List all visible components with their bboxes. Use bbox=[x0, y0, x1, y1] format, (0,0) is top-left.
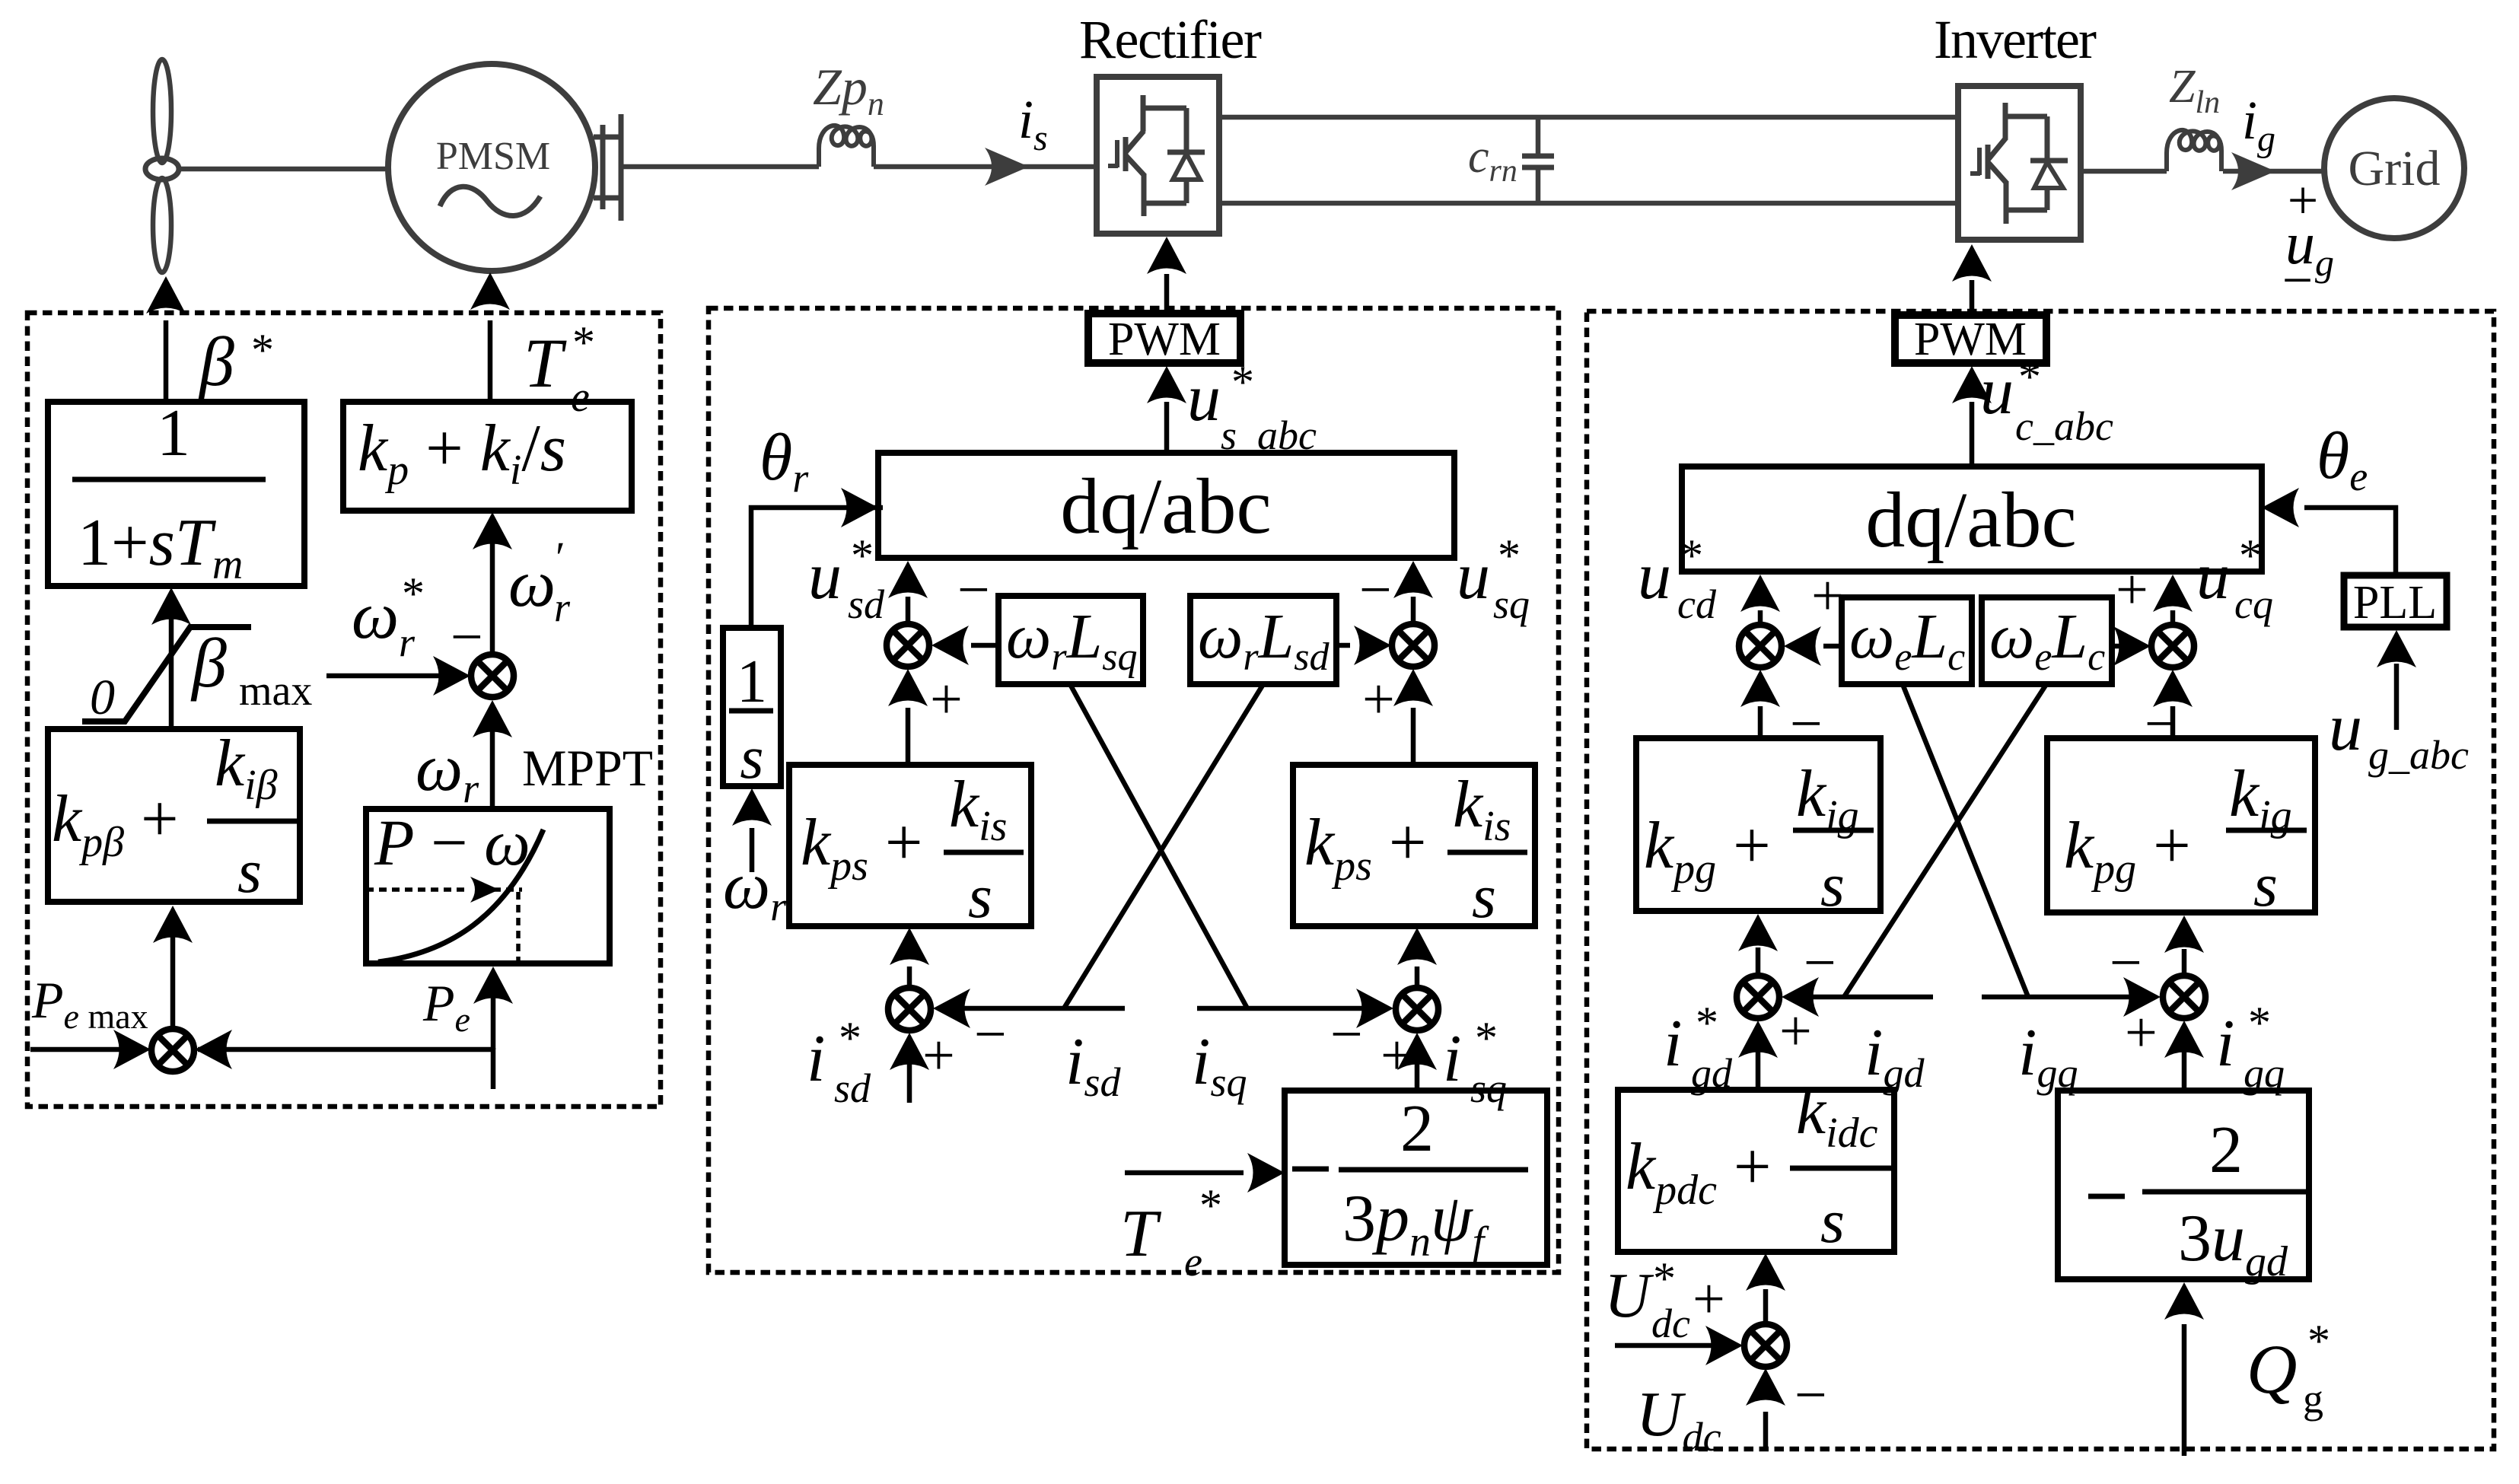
svg-text:*: * bbox=[1653, 1253, 1676, 1304]
arrowhead us_abc* into PWM bbox=[1147, 366, 1186, 403]
svg-text:s: s bbox=[968, 861, 992, 931]
arrowhead beta* into turbine bbox=[146, 276, 186, 314]
sum junction usq* bbox=[1392, 624, 1435, 667]
arrow shaft saturation to 1/(1+sTm) bbox=[169, 616, 174, 730]
arrowhead sum to kp+ki/s bbox=[473, 512, 512, 549]
arrowhead Te* into psi box bbox=[1247, 1153, 1285, 1193]
svg-text:*: * bbox=[851, 530, 874, 581]
wire speed-error sum to kp+ki/s bbox=[490, 533, 495, 654]
arrowhead Pe into P-omega box bbox=[473, 967, 513, 1004]
arrowhead igd* into sum bbox=[1738, 1021, 1778, 1058]
box P-omega MPPT bbox=[366, 809, 610, 963]
svg-text:+: + bbox=[1381, 1024, 1413, 1088]
arrowhead Udc into dc sum bbox=[1746, 1368, 1785, 1406]
arrowhead inside P-omega dashed bbox=[470, 877, 499, 903]
svg-text:*: * bbox=[1680, 530, 1703, 581]
svg-text:+: + bbox=[1362, 667, 1395, 731]
svg-text:s: s bbox=[2253, 850, 2278, 919]
svg-text:u: u bbox=[1638, 540, 1671, 613]
svg-text:1: 1 bbox=[737, 648, 767, 715]
svg-text:i: i bbox=[807, 1022, 825, 1096]
wire igq sum to kpg right bbox=[2182, 949, 2187, 975]
svg-text:2: 2 bbox=[2209, 1113, 2243, 1187]
box kps right bbox=[1293, 765, 1535, 926]
svg-text:+: + bbox=[930, 667, 963, 731]
arrowhead ucq* into dq/abc bbox=[2153, 575, 2193, 612]
svg-text:−: − bbox=[1790, 692, 1823, 756]
svg-text:c_abc: c_abc bbox=[2015, 403, 2113, 449]
svg-text:*: * bbox=[251, 325, 274, 375]
box kps left bbox=[789, 765, 1031, 926]
svg-text:0: 0 bbox=[90, 670, 115, 725]
capacitor crn wires bbox=[1536, 117, 1541, 203]
arrowhead ug_abc into PLL bbox=[2377, 630, 2416, 667]
svg-text:u: u bbox=[1457, 540, 1490, 613]
wire wLc1 to ucd sum bbox=[1823, 644, 1842, 649]
wire inverter to Zln bbox=[2081, 169, 2167, 174]
fraction bar 2/(3pnpsi) bbox=[1339, 1167, 1528, 1173]
inverter IGBT bbox=[1970, 148, 1980, 175]
sum junction Udc bbox=[1744, 1324, 1787, 1367]
svg-text:ω: ω bbox=[352, 579, 399, 653]
svg-text:e: e bbox=[571, 374, 590, 421]
wire isd* stub bbox=[907, 1053, 912, 1103]
svg-text:sd: sd bbox=[834, 1065, 871, 1111]
arrowhead igd sum to kpg bbox=[1738, 914, 1778, 951]
dc rail bottom bbox=[1219, 201, 1958, 206]
arrowhead Pemax into sum bbox=[113, 1030, 151, 1069]
svg-text:1: 1 bbox=[157, 396, 190, 470]
fraction bar kig/s left bbox=[1793, 828, 1874, 833]
arrowhead Pe into sum from right bbox=[195, 1030, 232, 1069]
svg-text:r: r bbox=[399, 619, 416, 665]
svg-text:′: ′ bbox=[556, 533, 565, 582]
svg-text:ω: ω bbox=[508, 547, 556, 621]
arrowhead igd into sum bbox=[1782, 977, 1819, 1017]
svg-text:MPPT: MPPT bbox=[522, 739, 653, 797]
box kpdc bbox=[1618, 1090, 1894, 1252]
svg-text:β: β bbox=[198, 323, 234, 400]
dq/abc box inverter bbox=[1682, 467, 2262, 572]
fraction bar kis/s left bbox=[944, 850, 1024, 855]
svg-text:r: r bbox=[554, 584, 571, 630]
arrow PWM to rectifier wire bbox=[1164, 274, 1170, 314]
svg-text:Inverter: Inverter bbox=[1934, 9, 2097, 70]
svg-text:+: + bbox=[2125, 1001, 2158, 1065]
i_g arrow head bbox=[2231, 152, 2275, 190]
arrowhead igq sum to kpg bbox=[2164, 916, 2204, 953]
wire igd sum to kpg left bbox=[1756, 947, 1761, 975]
wind turbine hub bbox=[145, 158, 179, 180]
box omega_e Lc 2 bbox=[1982, 597, 2112, 684]
wire Qg* into ugd box bbox=[2182, 1324, 2187, 1456]
sum junction ucq* bbox=[2151, 625, 2194, 667]
shaft wire turbine to PMSM bbox=[179, 167, 389, 172]
svg-text:−: − bbox=[1804, 931, 1836, 995]
svg-text:P − ω: P − ω bbox=[374, 806, 530, 879]
wire igd* from kpdc bbox=[1756, 1044, 1761, 1090]
svg-text:−: − bbox=[2145, 692, 2177, 756]
svg-text:−: − bbox=[1330, 1002, 1363, 1066]
arrowhead omega_r into 1/s bbox=[732, 788, 772, 826]
ug_abc input to PLL bbox=[2394, 664, 2400, 730]
wire isq horizontal bbox=[1197, 1006, 1373, 1011]
wire usq* sum to dq/abc bbox=[1411, 597, 1416, 623]
arrowhead uc_abc* into PWM bbox=[1952, 366, 1992, 403]
wire ucd* sum to dq/abc bbox=[1758, 610, 1763, 624]
inverter diode bbox=[2005, 116, 2068, 224]
svg-text:s: s bbox=[1820, 1186, 1845, 1256]
arrowhead PWM to inverter bbox=[1952, 244, 1992, 282]
arrowhead wLc2 into ucq sum bbox=[2113, 626, 2151, 666]
PWM box inverter bbox=[1895, 315, 2046, 363]
wire isd sum to kps left bbox=[907, 967, 912, 987]
sum junction speed error bbox=[471, 654, 514, 697]
svg-text:s: s bbox=[1820, 850, 1845, 919]
arrowhead dc sum to kpdc bbox=[1746, 1253, 1785, 1291]
svg-text:−: − bbox=[1795, 1363, 1827, 1427]
svg-text:i: i bbox=[1664, 1007, 1682, 1081]
i_s arrow head bbox=[985, 148, 1029, 186]
inductor Zln bbox=[2167, 130, 2221, 171]
PWM box rectifier bbox=[1088, 314, 1240, 363]
wire kpg2 to ucq sum bbox=[2170, 706, 2176, 738]
svg-text:e: e bbox=[1184, 1239, 1202, 1285]
svg-text:−: − bbox=[2110, 931, 2142, 995]
svg-text:PLL: PLL bbox=[2353, 577, 2437, 629]
stator wire to inductor bbox=[621, 164, 819, 170]
arrowhead saturation out to 1/(1+sTm) bbox=[151, 588, 191, 625]
box 2/(3 pn psi_f) bbox=[1285, 1091, 1547, 1265]
sum junction igq bbox=[2163, 976, 2205, 1018]
box 2/(3u_gd) bbox=[2058, 1091, 2309, 1279]
arrowhead isd* into sum bbox=[890, 1033, 929, 1070]
svg-text:−: − bbox=[451, 605, 483, 669]
svg-text:U: U bbox=[1604, 1260, 1654, 1331]
dc rail top bbox=[1219, 115, 1958, 120]
PMSM terminal bars bbox=[594, 114, 621, 221]
svg-text:+: + bbox=[1811, 564, 1844, 628]
svg-text:+: + bbox=[922, 1024, 955, 1088]
svg-text:u: u bbox=[1980, 355, 2014, 428]
svg-text:*: * bbox=[1199, 1180, 1222, 1231]
wire wLc2 to ucq sum bbox=[2112, 644, 2125, 649]
arrowhead Udc* into dc sum bbox=[1705, 1326, 1743, 1365]
svg-text:sd: sd bbox=[848, 581, 885, 627]
box kpg left bbox=[1636, 738, 1880, 911]
svg-text:*: * bbox=[839, 1013, 861, 1063]
diagonal wLsd input bbox=[1064, 684, 1263, 1008]
svg-text:−: − bbox=[1359, 558, 1392, 622]
svg-text:*: * bbox=[2239, 530, 2262, 581]
wire omega_r from P-w box to sum bbox=[490, 719, 495, 809]
svg-text:s: s bbox=[1472, 861, 1496, 931]
svg-text:+: + bbox=[2116, 558, 2148, 622]
wire dq/abc to PWM bbox=[1164, 402, 1170, 453]
saturation limiter symbol bbox=[82, 627, 251, 721]
wire igd horizontal bbox=[1804, 995, 1933, 1000]
arrowhead wLsq into usd sum bbox=[931, 626, 969, 665]
svg-text:*: * bbox=[2307, 1316, 2330, 1366]
rectifier box bbox=[1097, 77, 1219, 234]
svg-text:s: s bbox=[237, 836, 262, 906]
arrowhead omega_r* into sum bbox=[433, 656, 470, 696]
svg-text:+: + bbox=[1779, 999, 1812, 1063]
svg-text:PMSM: PMSM bbox=[436, 135, 550, 178]
fraction bar kidc/s bbox=[1790, 1166, 1891, 1171]
wire sum up to kp_beta box bbox=[170, 932, 176, 1027]
sum junction isd bbox=[888, 988, 931, 1030]
PMSM machine circle bbox=[388, 64, 595, 271]
wire inductor to rectifier bbox=[874, 164, 1097, 170]
wire igq horizontal bbox=[1982, 995, 2140, 1000]
dq/abc box rectifier bbox=[878, 453, 1454, 558]
fraction bar kis/s right bbox=[1447, 850, 1527, 855]
1/s fraction bar bbox=[729, 709, 773, 714]
fraction bar kig/s right bbox=[2226, 828, 2307, 833]
P-omega curve bbox=[378, 830, 543, 962]
svg-text:cd: cd bbox=[1677, 581, 1717, 627]
1/s box bbox=[723, 628, 781, 786]
arrowhead usd* into dq/abc bbox=[888, 561, 928, 598]
wire ucq* sum to dq/abc bbox=[2170, 610, 2176, 624]
arrowhead isq into sum bbox=[1356, 989, 1393, 1028]
diagonal wLc1 input bbox=[1903, 684, 2028, 997]
minus bar in ugd box bbox=[2088, 1194, 2125, 1199]
arrowhead omega_r into sum from below bbox=[473, 700, 512, 737]
svg-text:+: + bbox=[1693, 1267, 1725, 1331]
box omega_r Lsq bbox=[998, 596, 1143, 684]
sum junction Pe max bbox=[151, 1029, 194, 1072]
wire isq* from psi box bbox=[1415, 1053, 1420, 1092]
svg-text:i: i bbox=[2216, 1007, 2234, 1081]
arrowhead isq sum to kps bbox=[1397, 928, 1437, 965]
sum junction igd bbox=[1737, 976, 1779, 1018]
arrowhead wLc1 into ucd sum bbox=[1784, 626, 1821, 666]
svg-text:s_abc: s_abc bbox=[1221, 412, 1317, 458]
wire Udc into dc sum from below bbox=[1763, 1412, 1769, 1450]
inductor Zpn bbox=[819, 126, 874, 167]
theta_e wire bbox=[2304, 508, 2396, 575]
svg-text:*: * bbox=[1498, 530, 1521, 581]
wire omega_r* into sum bbox=[326, 674, 449, 679]
box kp_beta bbox=[48, 729, 300, 902]
svg-text:dq/abc: dq/abc bbox=[1060, 463, 1271, 550]
svg-text:T: T bbox=[524, 324, 567, 402]
svg-text:*: * bbox=[1475, 1013, 1498, 1063]
rectifier diode bbox=[1143, 108, 1205, 216]
wire isd horizontal bbox=[954, 1006, 1125, 1011]
theta_r wire bbox=[751, 508, 883, 628]
svg-text:g_abc: g_abc bbox=[2368, 732, 2469, 778]
inverter box bbox=[1958, 86, 2081, 240]
svg-text:g: g bbox=[2303, 1376, 2323, 1422]
arrowhead theta_r into dq/abc bbox=[841, 488, 878, 527]
svg-text:dq/abc: dq/abc bbox=[1865, 476, 2076, 564]
wire wLsq box to usd sum bbox=[971, 643, 998, 648]
arrowhead Te* into PMSM bbox=[470, 272, 510, 310]
minus bar in psi box bbox=[1292, 1167, 1329, 1172]
svg-text:sq: sq bbox=[1470, 1065, 1507, 1111]
box kp+ki/s bbox=[343, 402, 632, 511]
grid circle bbox=[2324, 98, 2464, 238]
wire dq/abc to PWM inverter bbox=[1970, 402, 1975, 467]
wire dc sum up to kpdc bbox=[1763, 1289, 1769, 1323]
box 1/(1+sTm) bbox=[48, 402, 304, 586]
labels top row bbox=[436, 9, 2441, 310]
box omega_r Lsd bbox=[1190, 596, 1336, 684]
arrowhead isd into sum bbox=[933, 989, 970, 1028]
svg-text:−: − bbox=[957, 558, 990, 622]
diagonal wLc2 input bbox=[1844, 684, 2046, 997]
arrowhead kpg1 into ucd sum bbox=[1740, 670, 1780, 707]
omega_r input to 1/s bbox=[750, 828, 755, 872]
fraction bar 1/(1+sTm) bbox=[72, 477, 266, 482]
svg-text:u: u bbox=[1187, 361, 1221, 435]
svg-text:*: * bbox=[2018, 352, 2041, 402]
wire usd* sum to dq/abc bbox=[906, 597, 911, 623]
P-omega dashed vertical bbox=[516, 892, 521, 962]
svg-text:u: u bbox=[2329, 691, 2362, 765]
middle control dashed border bbox=[709, 308, 1559, 1272]
svg-text:sq: sq bbox=[1493, 581, 1530, 627]
wire igq* from 2/3ugd bbox=[2182, 1044, 2187, 1091]
sum junction usd* bbox=[887, 624, 929, 667]
sum junction ucd* bbox=[1739, 625, 1782, 667]
diagonal wLsq input bbox=[1070, 684, 1247, 1008]
wire beta* to turbine bbox=[164, 320, 169, 402]
PLL box bbox=[2344, 575, 2447, 627]
svg-text:β: β bbox=[190, 624, 227, 702]
left control dashed border bbox=[27, 313, 661, 1107]
box omega_e Lc 1 bbox=[1842, 597, 1972, 684]
svg-text:max: max bbox=[239, 667, 312, 715]
svg-text:*: * bbox=[572, 317, 595, 368]
wire isq sum to kps right bbox=[1415, 967, 1420, 987]
box kpg right bbox=[2047, 738, 2315, 912]
wire Te* into psi box bbox=[1125, 1170, 1244, 1176]
svg-text:*: * bbox=[2248, 998, 2271, 1048]
arrowhead igq* into sum bbox=[2164, 1021, 2204, 1058]
capacitor crn plates bbox=[1522, 156, 1554, 167]
fraction bar 2/3ugd bbox=[2142, 1189, 2306, 1195]
fraction bar ki_beta/s bbox=[207, 819, 298, 824]
wind turbine blade lower bbox=[153, 178, 171, 272]
svg-text:T: T bbox=[1120, 1197, 1162, 1271]
svg-text:−: − bbox=[974, 1002, 1007, 1066]
arrowhead sum up to kp_beta bbox=[153, 906, 193, 943]
arrowhead PWM to rectifier bbox=[1147, 237, 1186, 274]
PMSM sine symbol bbox=[440, 186, 540, 215]
wind turbine blade upper bbox=[153, 59, 171, 163]
right control dashed border bbox=[1587, 311, 2494, 1449]
svg-text:*: * bbox=[402, 568, 425, 619]
svg-text:i: i bbox=[1443, 1022, 1461, 1096]
arrowhead igq into sum bbox=[2123, 977, 2161, 1017]
arrowhead isq* into sum bbox=[1397, 1033, 1437, 1070]
P-omega dashed horizontal bbox=[366, 887, 467, 892]
svg-text:dc: dc bbox=[1651, 1301, 1690, 1346]
svg-text:PWM: PWM bbox=[1108, 314, 1221, 365]
rectifier IGBT bbox=[1108, 140, 1118, 167]
arrowhead ucd* into dq/abc bbox=[1740, 575, 1780, 612]
svg-text:cq: cq bbox=[2234, 581, 2273, 627]
arrowhead wLsd into usq sum bbox=[1354, 626, 1391, 665]
svg-text:gd: gd bbox=[1691, 1050, 1733, 1096]
wire Zln to grid bbox=[2223, 169, 2325, 174]
arrowhead isd sum to kps bbox=[890, 928, 929, 965]
wire Pemax into sum bbox=[30, 1047, 131, 1052]
svg-text:s: s bbox=[740, 724, 763, 791]
wire Pe horizontal to Pemax sum bbox=[198, 1048, 493, 1049]
wire Pe into P-omega box bbox=[491, 997, 496, 1089]
wire Te* to PMSM bbox=[488, 320, 493, 402]
sum junction isq bbox=[1396, 988, 1438, 1030]
arrowhead usq* into dq/abc bbox=[1393, 561, 1433, 598]
arrowhead kpg2 into ucq sum bbox=[2153, 670, 2193, 707]
wire kps to usd sum bbox=[906, 708, 911, 765]
svg-text:u: u bbox=[808, 540, 842, 613]
arrowhead kps into usd sum bbox=[888, 669, 928, 706]
svg-text:−: − bbox=[2282, 250, 2314, 310]
wire kps to usq sum bbox=[1411, 708, 1416, 765]
wire wLsd box to usq sum bbox=[1336, 643, 1350, 648]
wire kpg1 to ucd sum bbox=[1758, 706, 1763, 738]
svg-text:u: u bbox=[2196, 540, 2230, 613]
arrowhead Qg* into ugd box bbox=[2164, 1282, 2204, 1320]
svg-text:*: * bbox=[1231, 357, 1254, 407]
svg-text:2: 2 bbox=[1400, 1092, 1434, 1166]
arrowhead theta_e into dq/abc bbox=[2262, 488, 2299, 527]
svg-text:Q: Q bbox=[2247, 1330, 2297, 1408]
arrow PWM to inverter wire bbox=[1970, 280, 1975, 314]
svg-text:Rectifier: Rectifier bbox=[1079, 9, 1262, 70]
wire Udc* into dc sum bbox=[1615, 1343, 1721, 1349]
arrowhead kps into usq sum bbox=[1393, 669, 1433, 706]
svg-text:*: * bbox=[1696, 998, 1718, 1048]
svg-text:gq: gq bbox=[2244, 1050, 2285, 1096]
svg-text:Grid: Grid bbox=[2349, 141, 2441, 196]
